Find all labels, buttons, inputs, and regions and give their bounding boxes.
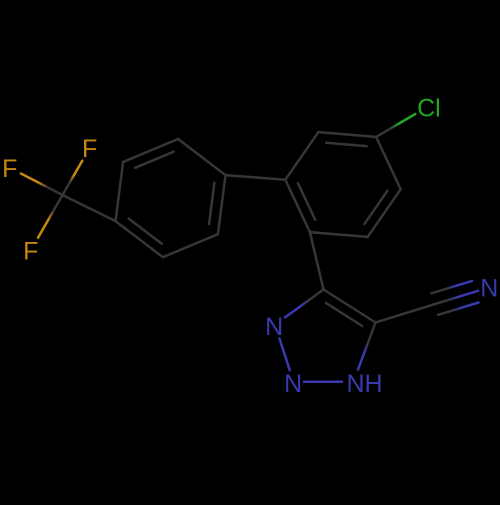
bond C5 to nitrile C — [376, 305, 432, 323]
nitrile triple bond center line — [432, 291, 478, 305]
bond C-Cl — [376, 114, 415, 137]
svg-text:F: F — [2, 155, 17, 183]
right ring bond V2-V1 — [285, 180, 310, 232]
right ring inner double V2-V1 — [298, 183, 315, 220]
svg-text:N: N — [265, 313, 283, 341]
triazole bond C4-N3 — [285, 290, 323, 318]
triazole bond N2-N1 — [304, 381, 342, 384]
left ring bond L4-L3 — [116, 221, 163, 257]
triazole inner double C5-C4 — [326, 303, 362, 326]
left ring inner double L4-L3 — [129, 219, 162, 244]
bond C-F bottom — [38, 195, 63, 238]
bond C-F left — [21, 174, 63, 196]
triazole bond C5-C4 (double) — [324, 290, 376, 323]
left ring bond L5-L4 — [116, 162, 124, 221]
svg-text:NH: NH — [347, 370, 383, 398]
triazole bond N1-C5 — [358, 323, 376, 370]
bond C-F top — [63, 161, 83, 195]
left ring bond L1-L6 — [178, 139, 225, 175]
svg-text:F: F — [23, 237, 38, 265]
svg-text:F: F — [82, 135, 97, 163]
bond CF3-phenyl — [63, 195, 116, 221]
right ring inner double V5-V6 — [364, 191, 387, 224]
left ring bond L2-L1 — [218, 175, 226, 234]
nitrile triple bond upper line — [431, 281, 472, 293]
svg-text:N: N — [480, 275, 498, 303]
biphenyl bond L1-V2 — [226, 175, 286, 180]
left ring bond L3-L2 — [163, 234, 218, 257]
left ring bond L6-L5 — [123, 139, 178, 162]
right ring bond V2-V3 — [285, 132, 318, 180]
svg-text:Cl: Cl — [417, 95, 441, 123]
right ring bond V3-V4 — [318, 132, 376, 137]
right ring inner double V3-V4 — [326, 143, 366, 146]
triazole bond N3-N2 — [280, 339, 290, 371]
right ring bond V6-V1 — [310, 232, 368, 237]
svg-text:N: N — [284, 370, 302, 398]
left ring inner double L2-L1 — [209, 183, 214, 224]
right ring bond V5-V6 — [368, 189, 401, 237]
right ring bond V4-V5 — [376, 137, 401, 189]
left ring inner double L6-L5 — [135, 152, 174, 168]
nitrile triple bond lower line — [438, 303, 479, 315]
bond aryl to triazole C4 — [310, 232, 324, 289]
